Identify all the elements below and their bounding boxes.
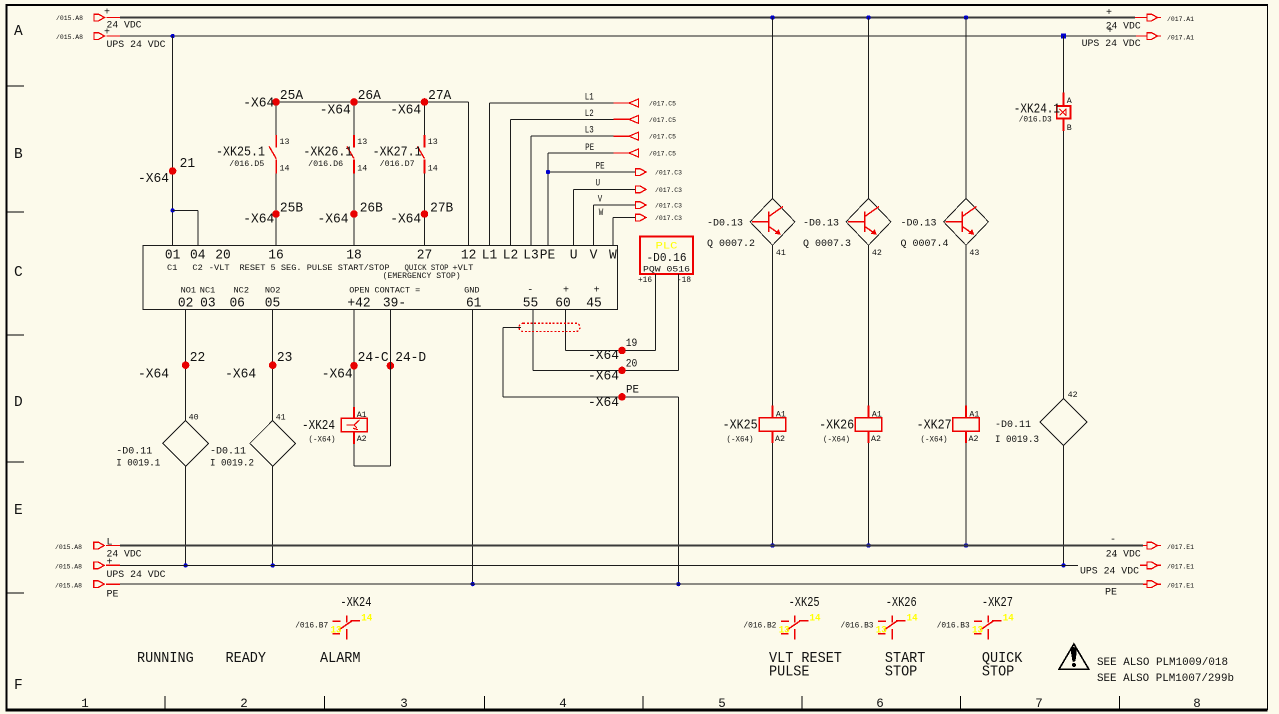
wire diamond to coil -XK25 (772, 245, 774, 405)
warning triangle (1059, 644, 1089, 669)
svg-text:05: 05 (265, 296, 281, 312)
svg-text:STOP: STOP (885, 664, 917, 680)
source arrow /015.A8 +24VDC (94, 14, 105, 21)
svg-text:60: 60 (555, 296, 571, 312)
sheet arrow /017.E1 rail1b (1143, 545, 1147, 547)
svg-text:4: 4 (559, 697, 567, 711)
svg-text:RUNNING: RUNNING (137, 651, 194, 667)
PLC input diamond 40 (163, 421, 209, 467)
source arrow /015.A8 rail2b (94, 562, 105, 569)
svg-text:NC2: NC2 (234, 286, 250, 296)
terminal -X64:20 (618, 367, 626, 375)
svg-text:18: 18 (346, 248, 362, 264)
terminal -X64:24-C (350, 362, 358, 370)
svg-text:W: W (609, 248, 617, 264)
svg-text:/017.C5: /017.C5 (649, 134, 676, 142)
source arrow /015.A8 rail1b (94, 542, 105, 549)
svg-text:A2: A2 (775, 434, 785, 444)
terminal -X64:26B (350, 210, 358, 218)
terminal -X64:25A (272, 98, 280, 106)
svg-text:26B: 26B (360, 201, 383, 217)
svg-text:L3: L3 (523, 248, 539, 264)
svg-text:12: 12 (461, 248, 477, 264)
svg-text:-X64: -X64 (322, 367, 353, 383)
svg-text:8: 8 (1193, 697, 1201, 711)
svg-text:W: W (599, 207, 604, 219)
junction 61-PE rail (471, 582, 475, 586)
svg-text:41: 41 (276, 412, 286, 422)
wire PE to /017.C5 (547, 153, 549, 246)
wire V to /017.C3 (594, 204, 636, 206)
svg-text:/017.E1: /017.E1 (1167, 583, 1194, 591)
svg-text:UPS 24 VDC: UPS 24 VDC (1080, 567, 1139, 578)
terminal -X64:19 (618, 347, 626, 355)
wire diamond 41 to UPS- rail (272, 466, 274, 565)
svg-text:STOP: STOP (982, 664, 1014, 680)
svg-text:B: B (14, 147, 23, 163)
svg-text:01: 01 (165, 248, 181, 264)
svg-text:+16: +16 (638, 275, 652, 285)
svg-text:/016.D3: /016.D3 (1019, 115, 1052, 125)
wire +24VDC top rail (120, 17, 1135, 19)
svg-text:5: 5 (718, 697, 726, 711)
svg-text:/017.A1: /017.A1 (1167, 35, 1194, 43)
svg-text:/017.C3: /017.C3 (655, 215, 682, 223)
aux contact -XK24 13-14 (333, 620, 341, 622)
sheet arrow /017.A1 rail2 right (1136, 35, 1147, 37)
wire -XK24.1 to diamond 42 (1063, 131, 1065, 399)
svg-text:-XK26: -XK26 (886, 595, 917, 611)
svg-text:I 0019.2: I 0019.2 (210, 458, 254, 469)
svg-text:/015.A8: /015.A8 (56, 34, 83, 42)
svg-text:6: 6 (876, 697, 884, 711)
svg-text:14: 14 (361, 612, 372, 624)
wire diamond to coil -XK27 (965, 245, 967, 405)
wire -24VDC bottom rail (120, 545, 1143, 547)
svg-text:+: + (1106, 8, 1112, 19)
svg-text:25A: 25A (280, 88, 304, 104)
terminal -X64:27B (421, 210, 429, 218)
svg-text:-X64: -X64 (320, 103, 351, 119)
svg-text:20: 20 (215, 248, 231, 264)
svg-text:NC1: NC1 (200, 286, 216, 296)
svg-text:-D0.11: -D0.11 (116, 447, 152, 458)
signal lamp -XK24.1 (1062, 93, 1064, 106)
contact -XK26.1 (NO, terminals 13-14) (353, 135, 355, 148)
svg-text:-D0.13: -D0.13 (707, 219, 743, 230)
wire L2 to /017.C5 (510, 119, 512, 245)
terminal -X64:22 (182, 361, 190, 369)
row boundary ticks (left margin) (8, 85, 25, 87)
svg-text:22: 22 (190, 350, 206, 366)
svg-text:43: 43 (969, 248, 979, 258)
svg-text:A: A (1067, 96, 1073, 106)
svg-text:-D0.11: -D0.11 (995, 420, 1031, 431)
terminal -X64:23 (269, 361, 277, 369)
transistor symbol (Q 0007.4) (961, 212, 963, 233)
svg-text:PE: PE (626, 384, 639, 396)
transistor symbol (Q 0007.2) (768, 212, 770, 233)
relay coil -XK26 (868, 405, 870, 417)
svg-text:-X64: -X64 (138, 171, 169, 187)
svg-text:03: 03 (200, 296, 216, 312)
svg-text:UPS 24 VDC: UPS 24 VDC (107, 40, 166, 51)
svg-text:(-X64): (-X64) (921, 435, 948, 445)
sheet arrow L2 (629, 115, 639, 123)
svg-text:(-X64): (-X64) (823, 435, 850, 445)
svg-text:READY: READY (226, 651, 267, 667)
svg-text:21: 21 (180, 156, 196, 172)
svg-text:04: 04 (190, 248, 206, 264)
PLC output diamond Q 0007.2 (750, 198, 795, 245)
wire coil -XK27 to 24VDC- rail (965, 443, 967, 545)
terminal -X64:21 (169, 167, 177, 175)
svg-text:-X64: -X64 (225, 367, 256, 383)
svg-text:/017.C5: /017.C5 (649, 101, 676, 109)
PLC analog module -D0.16 (640, 237, 693, 275)
svg-text:D: D (14, 395, 23, 411)
svg-text:/015.A8: /015.A8 (56, 15, 83, 23)
svg-text:19: 19 (626, 338, 638, 350)
svg-text:-X64: -X64 (138, 367, 169, 383)
svg-text:U: U (570, 248, 578, 264)
aux contact -XK27 13-14 (974, 620, 982, 622)
svg-text:PE: PE (596, 161, 605, 173)
svg-text:14: 14 (907, 612, 918, 624)
svg-text:/017.C5: /017.C5 (649, 117, 676, 125)
svg-text:-VLT: -VLT (209, 263, 230, 273)
svg-text:PE: PE (585, 142, 594, 154)
svg-text:13: 13 (428, 137, 438, 147)
wire coil A2 to 39- (353, 444, 355, 466)
wire shield to PE terminal (503, 326, 521, 328)
wire PLC +16 to X64:19 (655, 274, 657, 351)
wire coil -XK26 to 24VDC- rail (868, 443, 870, 545)
svg-text:-: - (1110, 535, 1116, 546)
sheet arrow W right (636, 214, 647, 221)
border frame (6, 4, 8, 710)
wire upper lead -XK27.1 (424, 102, 426, 135)
source arrow /015.A8 rail3b (94, 581, 105, 588)
contact -XK25.1 (NO, terminals 13-14) (275, 135, 277, 148)
svg-text:14: 14 (1003, 612, 1014, 624)
svg-text:+: + (104, 8, 110, 19)
sheet arrow L3 (629, 132, 639, 140)
svg-text:I 0019.3: I 0019.3 (995, 435, 1039, 446)
svg-text:41: 41 (776, 248, 786, 258)
svg-text:/017.E1: /017.E1 (1167, 564, 1194, 572)
svg-text:/017.C3: /017.C3 (655, 170, 682, 178)
svg-text:-X64: -X64 (588, 369, 619, 385)
svg-text:24 VDC: 24 VDC (1106, 550, 1141, 561)
sheet arrow L1 (629, 99, 639, 107)
svg-text:PE: PE (107, 590, 119, 601)
svg-text:2: 2 (240, 697, 248, 711)
svg-text:L1: L1 (482, 248, 498, 264)
wire rail1 to output diamond (-XK27) (965, 18, 967, 199)
aux contact -XK26 13-14 (878, 620, 886, 622)
junction rail1 x772 (770, 15, 774, 19)
wire PE to /017.C3 (548, 171, 636, 173)
wire UPS rail to terminal 01 (172, 36, 174, 246)
svg-text:20: 20 (626, 358, 638, 370)
svg-text:-XK25: -XK25 (723, 418, 758, 434)
svg-text:UPS 24 VDC: UPS 24 VDC (107, 570, 166, 581)
aux contact -XK25 13-14 (781, 620, 789, 622)
svg-text:B: B (1067, 123, 1072, 133)
svg-text:14: 14 (357, 164, 367, 174)
svg-text:-XK27: -XK27 (917, 418, 952, 434)
junction rail2 x172 (170, 34, 174, 38)
svg-text:-D0.13: -D0.13 (803, 219, 839, 230)
wire UPS 24VDC top rail (120, 35, 1136, 37)
junction -XK27 rail1b (964, 543, 968, 547)
svg-text:SEE ALSO PLM1007/299b: SEE ALSO PLM1007/299b (1097, 673, 1234, 685)
terminal -X64:26A (350, 98, 358, 106)
svg-text:OPEN CONTACT =: OPEN CONTACT = (349, 286, 420, 296)
svg-text:C: C (14, 265, 23, 281)
junction PE rail x678 (676, 582, 680, 586)
terminal -X64:27A (421, 98, 429, 106)
svg-text:/015.A8: /015.A8 (55, 564, 82, 572)
svg-text:/017.C3: /017.C3 (655, 187, 682, 195)
wire terminal to diamond 41 (272, 310, 274, 421)
junction rail2 x1063 (1061, 34, 1066, 39)
svg-text:/016.B2: /016.B2 (743, 620, 776, 630)
junction -XK25 rail1b (770, 543, 774, 547)
svg-text:A2: A2 (871, 434, 881, 444)
svg-text:A1: A1 (872, 410, 882, 420)
svg-text:1: 1 (81, 697, 89, 711)
svg-text:-X64: -X64 (318, 212, 349, 228)
sheet arrow /017.E1 rail3b (1143, 583, 1147, 585)
svg-text:A1: A1 (776, 410, 786, 420)
svg-text:40: 40 (189, 412, 199, 422)
svg-text:06: 06 (229, 296, 245, 312)
wire UPS- bottom rail (120, 564, 1078, 566)
svg-text:45: 45 (586, 296, 602, 312)
wire UPS rail to -XK24.1 (1063, 36, 1065, 93)
svg-text:NO2: NO2 (265, 286, 281, 296)
svg-text:A1: A1 (969, 410, 979, 420)
svg-text:42: 42 (872, 248, 882, 258)
svg-text:/016.D6: /016.D6 (308, 159, 343, 169)
svg-text:61: 61 (466, 296, 482, 312)
svg-text:-X64: -X64 (390, 103, 421, 119)
svg-text:PQW 0516: PQW 0516 (643, 265, 690, 275)
svg-text:13: 13 (779, 624, 790, 636)
svg-text:13: 13 (972, 624, 983, 636)
svg-text:GND: GND (464, 286, 480, 296)
svg-text:42: 42 (1068, 390, 1078, 400)
svg-text:-XK26: -XK26 (819, 418, 854, 434)
contact -XK27.1 (NO, terminals 13-14) (424, 135, 426, 148)
svg-text:13: 13 (357, 137, 367, 147)
wire lower lead -XK25.1 (275, 173, 277, 245)
relay coil -XK24 (353, 407, 355, 418)
PLC output diamond Q 0007.3 (846, 198, 891, 245)
svg-text:/016.B7: /016.B7 (295, 620, 328, 630)
wire jog to terminal 04 (173, 209, 198, 211)
wire rail1 to output diamond (-XK26) (868, 18, 870, 199)
svg-text:C2: C2 (192, 263, 202, 273)
svg-text:-D0.13: -D0.13 (901, 219, 937, 230)
svg-text:-XK25: -XK25 (789, 595, 820, 611)
svg-text:02: 02 (178, 296, 194, 312)
svg-text:/017.C3: /017.C3 (655, 203, 682, 211)
svg-text:C1: C1 (167, 263, 177, 273)
svg-text:-X64: -X64 (243, 96, 274, 112)
svg-text:A2: A2 (357, 434, 367, 444)
svg-text:13: 13 (331, 624, 342, 636)
svg-text:-: - (1112, 552, 1118, 563)
wire GND 61 to PE rail (472, 310, 474, 584)
svg-text:16: 16 (268, 248, 284, 264)
junction -XK26 rail1b (866, 543, 870, 547)
svg-text:A1: A1 (357, 410, 367, 420)
svg-text:+: + (1107, 26, 1113, 37)
svg-text:L: L (107, 538, 113, 549)
wire PLC -18 to X64:20 (678, 274, 680, 370)
svg-text:/017.A1: /017.A1 (1167, 16, 1194, 24)
svg-text:F: F (14, 678, 23, 694)
wire lower lead -XK26.1 (353, 173, 355, 245)
svg-text:24-D: 24-D (395, 350, 426, 366)
svg-text:-X64: -X64 (588, 395, 619, 411)
svg-text:V: V (598, 194, 603, 206)
wire diamond to coil -XK26 (868, 245, 870, 405)
wire L1 to /017.C5 (489, 103, 491, 246)
svg-text:-X64: -X64 (243, 212, 274, 228)
column boundary ticks (bottom margin) (164, 696, 166, 709)
junction rail1 x868 (866, 15, 870, 19)
svg-text:39-: 39- (383, 296, 406, 312)
wire diamond 42 to UPS- rail (1063, 446, 1065, 566)
transistor symbol (Q 0007.3) (864, 212, 866, 233)
svg-text:ALARM: ALARM (320, 651, 361, 667)
svg-text:14: 14 (428, 164, 438, 174)
svg-text:13: 13 (876, 624, 887, 636)
wire rail1 to output diamond (-XK25) (772, 18, 774, 199)
svg-text:PLC: PLC (656, 242, 678, 253)
svg-text:PE: PE (1105, 588, 1117, 599)
svg-text:L2: L2 (585, 108, 594, 120)
sheet arrow PE right (636, 169, 647, 176)
wire +42 to coil A1 (353, 310, 355, 407)
PLC output diamond Q 0007.4 (944, 198, 989, 245)
sheet arrow PE (629, 149, 639, 157)
svg-text:-XK27: -XK27 (982, 595, 1013, 611)
PLC input diamond 41 (250, 421, 296, 467)
svg-text:U: U (596, 178, 601, 190)
svg-text:+: + (104, 28, 110, 39)
svg-text:(-X64): (-X64) (727, 435, 754, 445)
svg-text:55: 55 (523, 296, 539, 312)
svg-text:-XK24: -XK24 (302, 418, 335, 434)
svg-text:/016.B3: /016.B3 (841, 620, 874, 630)
source arrow /015.A8 UPS rail (94, 33, 105, 40)
svg-text:L2: L2 (503, 248, 519, 264)
svg-text:L3: L3 (585, 125, 594, 137)
wire PE to PE rail (677, 397, 679, 584)
svg-text:+42: +42 (347, 296, 370, 312)
svg-text:NO1: NO1 (181, 286, 197, 296)
svg-text:3: 3 (400, 697, 408, 711)
svg-text:Q 0007.2: Q 0007.2 (707, 239, 755, 250)
wire lower lead -XK27.1 (424, 173, 426, 245)
svg-text:26A: 26A (358, 88, 382, 104)
svg-text:A2: A2 (969, 434, 979, 444)
wire U to /017.C3 (574, 188, 636, 190)
svg-text:(EMERGENCY STOP): (EMERGENCY STOP) (383, 271, 461, 281)
svg-text:PULSE: PULSE (769, 664, 810, 680)
svg-text:14: 14 (280, 164, 290, 174)
svg-text:24 VDC: 24 VDC (107, 21, 142, 32)
terminal -X64:PE (618, 393, 626, 401)
svg-text:/015.A8: /015.A8 (55, 583, 82, 591)
wire diamond 40 to UPS- rail (185, 466, 187, 565)
svg-text:RESET 5 SEG. PULSE START/STOP: RESET 5 SEG. PULSE START/STOP (240, 263, 390, 273)
svg-text:PE: PE (540, 248, 556, 264)
svg-text:-D0.16: -D0.16 (647, 252, 687, 265)
junction diamond42 rail2b (1061, 563, 1065, 567)
svg-text:27B: 27B (430, 201, 453, 217)
svg-text:V: V (590, 248, 598, 264)
svg-text:/017.C5: /017.C5 (649, 151, 676, 159)
terminal -X64:24-D (387, 362, 395, 370)
svg-text:Q 0007.4: Q 0007.4 (901, 239, 949, 250)
svg-text:-XK24: -XK24 (340, 595, 371, 611)
junction x172 y210 (170, 208, 174, 212)
sheet arrow /017.E1 rail2b (1140, 564, 1147, 566)
junction 40 rail2 (183, 563, 187, 567)
junction rail1 x966 (964, 15, 968, 19)
svg-text:/015.A8: /015.A8 (55, 544, 82, 552)
svg-text:13: 13 (280, 137, 290, 147)
wire coil -XK25 to 24VDC- rail (772, 443, 774, 545)
svg-text:27A: 27A (428, 88, 452, 104)
svg-text:E: E (14, 503, 23, 519)
svg-text:Q 0007.3: Q 0007.3 (803, 239, 851, 250)
svg-text:/016.B3: /016.B3 (937, 620, 970, 630)
svg-text:-X64: -X64 (588, 348, 619, 364)
svg-text:27: 27 (417, 248, 433, 264)
svg-text:L1: L1 (585, 91, 594, 103)
svg-text:/016.D5: /016.D5 (229, 159, 264, 169)
svg-text:A: A (14, 24, 23, 40)
svg-text:+: + (107, 558, 113, 569)
svg-text:I 0019.1: I 0019.1 (116, 458, 160, 469)
svg-text:SEE ALSO PLM1009/018: SEE ALSO PLM1009/018 (1097, 657, 1228, 669)
sheet arrow V right (636, 202, 647, 209)
wire upper lead -XK25.1 (275, 102, 277, 135)
junction 41 rail2 (271, 563, 275, 567)
terminal -X64:25B (272, 210, 280, 218)
svg-text:/016.D7: /016.D7 (380, 159, 415, 169)
VLT drive terminal box U1 (143, 246, 618, 310)
wire PE bottom rail (120, 583, 1143, 585)
wire terminal to diamond 40 (185, 310, 187, 421)
svg-text:7: 7 (1035, 697, 1043, 711)
relay coil -XK27 (965, 405, 967, 417)
junction PE tap (546, 170, 550, 174)
svg-text:-X64: -X64 (390, 212, 421, 228)
svg-text:24-C: 24-C (358, 350, 389, 366)
svg-text:23: 23 (277, 350, 293, 366)
relay coil -XK25 (772, 405, 774, 417)
svg-text:14: 14 (810, 612, 821, 624)
svg-text:/017.E1: /017.E1 (1167, 544, 1194, 552)
